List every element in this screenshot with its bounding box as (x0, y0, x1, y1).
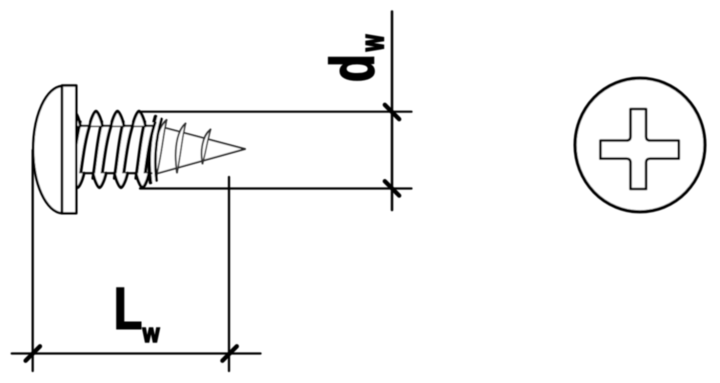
thread band 0 left edge (71, 122, 80, 178)
thread crest 1 fill (90, 111, 103, 126)
label dw subscript w (366, 35, 384, 52)
thread rev4 crescent left edge (149, 117, 155, 183)
cone point fill (150, 124, 246, 175)
envelope top line / dw extension top (141, 111, 412, 113)
thread crest 1 (90, 111, 103, 126)
cone thread wrap 3 fill (202, 130, 211, 164)
phillips circle (575, 78, 705, 212)
dw dimension line (391, 12, 394, 211)
cone upper edge (152, 124, 246, 149)
thread valley 0 partial fill (71, 173, 84, 187)
label dw letter d (329, 57, 375, 80)
thread crest 2 fill (111, 111, 124, 126)
thread band 3 fill (136, 122, 155, 185)
Lw extension left (32, 150, 34, 371)
thread valley 1 (93, 173, 106, 187)
thread band 0 fill (71, 122, 90, 185)
thread crest 3 fill (133, 111, 146, 126)
thread band 2 left edge (114, 122, 123, 178)
core bottom line (76, 172, 152, 174)
label Lw letter L (117, 288, 141, 329)
thread valley 0 partial (71, 173, 84, 187)
thread band 0 right edge (79, 123, 91, 186)
cone thread wrap 3 right edge (203, 130, 211, 164)
thread crest 2 (111, 111, 124, 126)
thread crest 3 (133, 111, 146, 126)
core top line (76, 125, 153, 127)
dw tick bottom (385, 181, 399, 195)
head dome (33, 86, 62, 213)
Lw extension right (228, 177, 230, 371)
cone thread wrap 1 left edge (154, 120, 166, 178)
thread rev4 crescent fill (149, 117, 161, 183)
cone thread wrap 2 fill (176, 124, 186, 173)
thread band 2 fill (114, 122, 133, 185)
Lw dimension line (12, 352, 261, 354)
cone lower edge (150, 149, 246, 176)
thread band 1 fill (93, 122, 112, 185)
thread band 1 left edge (93, 122, 102, 178)
thread band 3 right edge (144, 123, 156, 186)
thread band 3 left edge (136, 122, 145, 178)
head rim (62, 86, 76, 214)
thread valley 1 fill (93, 173, 106, 187)
phillips cross (600, 109, 678, 189)
thread band 1 right edge (101, 123, 113, 186)
thread valley 3 fill (136, 173, 149, 187)
thread rev4 crescent right edge (155, 119, 161, 181)
thread crest 0 partial fill (68, 111, 81, 126)
thread valley 2 (115, 173, 128, 187)
cone thread wrap 2 left edge (176, 124, 186, 173)
dw tick top (385, 105, 399, 119)
cone thread wrap 1 right edge (156, 120, 167, 178)
Lw tick left (26, 346, 40, 360)
cone thread wrap 3 left edge (202, 130, 211, 164)
thread crest 0 partial (68, 111, 81, 126)
cone thread wrap 2 right edge (177, 124, 186, 173)
thread valley 2 fill (115, 173, 128, 187)
thread band 2 right edge (122, 123, 134, 186)
cone thread wrap 1 fill (154, 120, 166, 178)
label Lw subscript w (143, 328, 160, 342)
thread valley 3 (136, 173, 149, 187)
envelope bottom line / dw extension bottom (140, 187, 412, 189)
Lw tick right (222, 346, 236, 360)
